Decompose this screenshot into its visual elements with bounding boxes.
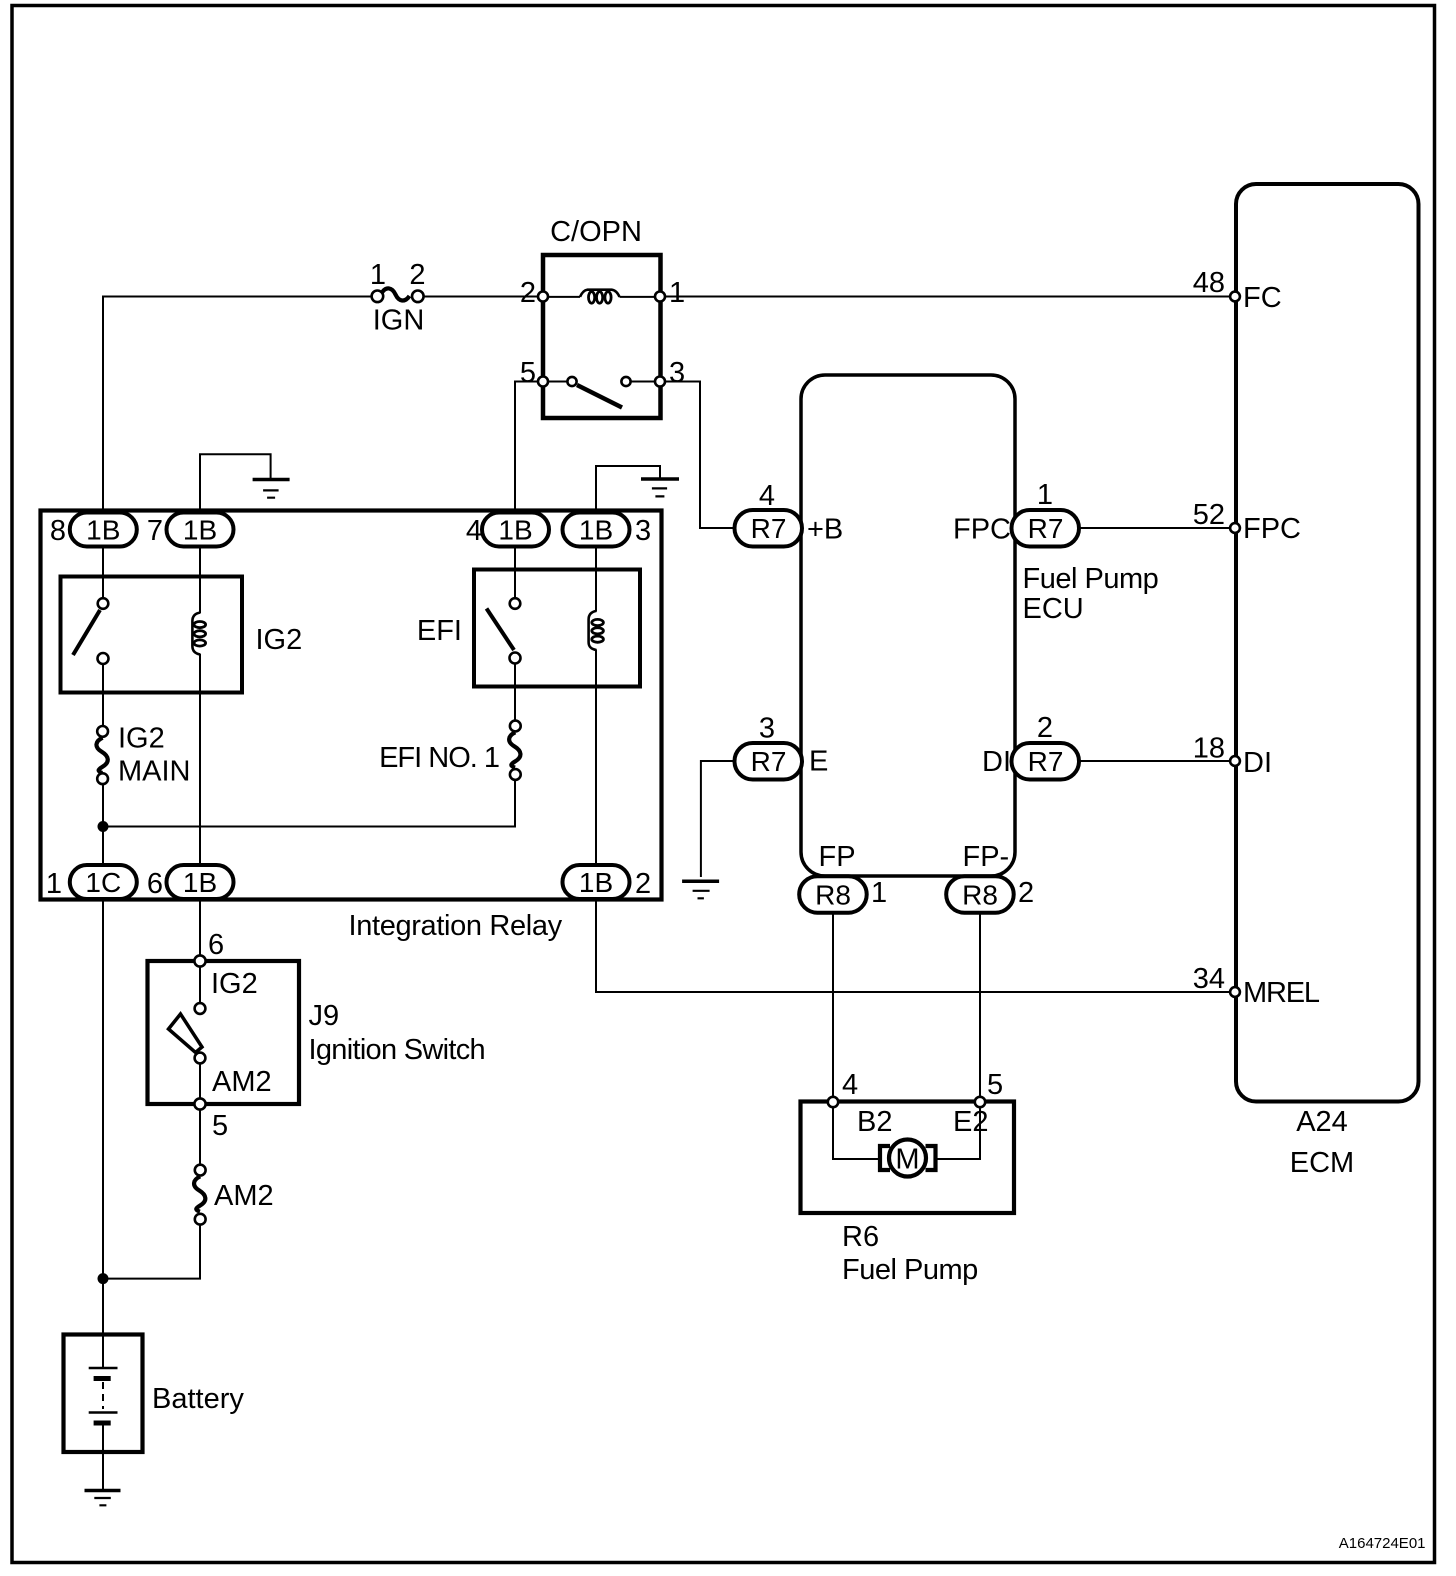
svg-text:R7: R7 bbox=[751, 746, 787, 777]
svg-text:DI: DI bbox=[982, 746, 1011, 778]
svg-text:EFI NO. 1: EFI NO. 1 bbox=[379, 742, 499, 774]
svg-text:8: 8 bbox=[50, 515, 66, 547]
svg-text:1: 1 bbox=[1037, 479, 1053, 511]
svg-text:J9: J9 bbox=[309, 1000, 340, 1032]
svg-text:B2: B2 bbox=[857, 1106, 892, 1138]
svg-text:18: 18 bbox=[1193, 733, 1225, 765]
svg-text:E2: E2 bbox=[953, 1106, 988, 1138]
svg-text:FP-: FP- bbox=[963, 841, 1010, 873]
svg-text:48: 48 bbox=[1193, 267, 1225, 299]
svg-text:IG2: IG2 bbox=[211, 968, 258, 1000]
svg-text:6: 6 bbox=[147, 868, 163, 900]
svg-text:3: 3 bbox=[669, 357, 685, 389]
svg-text:R7: R7 bbox=[751, 513, 787, 544]
svg-text:R8: R8 bbox=[962, 880, 998, 911]
svg-text:Integration Relay: Integration Relay bbox=[349, 910, 563, 942]
svg-text:1: 1 bbox=[46, 868, 62, 900]
svg-text:Battery: Battery bbox=[152, 1383, 244, 1415]
svg-text:1B: 1B bbox=[183, 867, 217, 898]
svg-text:2: 2 bbox=[1018, 877, 1034, 909]
svg-text:4: 4 bbox=[466, 515, 482, 547]
svg-text:MREL: MREL bbox=[1243, 977, 1320, 1009]
svg-text:R6: R6 bbox=[842, 1221, 879, 1253]
svg-text:AM2: AM2 bbox=[214, 1180, 274, 1212]
svg-text:AM2: AM2 bbox=[212, 1066, 272, 1098]
svg-text:5: 5 bbox=[212, 1110, 228, 1142]
svg-text:5: 5 bbox=[987, 1069, 1003, 1101]
svg-text:1B: 1B bbox=[498, 515, 532, 546]
svg-text:ECM: ECM bbox=[1290, 1147, 1354, 1179]
svg-text:3: 3 bbox=[759, 713, 775, 745]
svg-text:5: 5 bbox=[520, 357, 536, 389]
svg-text:Fuel Pump: Fuel Pump bbox=[1023, 563, 1159, 595]
svg-text:1: 1 bbox=[669, 277, 685, 309]
svg-text:2: 2 bbox=[635, 868, 651, 900]
svg-text:R7: R7 bbox=[1028, 746, 1064, 777]
svg-text:FP: FP bbox=[819, 841, 856, 873]
svg-text:4: 4 bbox=[842, 1069, 858, 1101]
svg-text:IG2: IG2 bbox=[118, 723, 165, 755]
svg-text:FPC: FPC bbox=[953, 514, 1011, 546]
svg-text:4: 4 bbox=[759, 480, 775, 512]
svg-text:Ignition Switch: Ignition Switch bbox=[309, 1034, 486, 1066]
svg-text:FC: FC bbox=[1243, 282, 1282, 314]
svg-text:1B: 1B bbox=[579, 867, 613, 898]
svg-text:MAIN: MAIN bbox=[118, 756, 191, 788]
svg-text:C/OPN: C/OPN bbox=[550, 216, 642, 248]
svg-text:Fuel Pump: Fuel Pump bbox=[842, 1254, 978, 1286]
svg-text:A24: A24 bbox=[1296, 1106, 1348, 1138]
svg-text:FPC: FPC bbox=[1243, 513, 1301, 545]
svg-text:IGN: IGN bbox=[373, 305, 425, 337]
svg-text:2: 2 bbox=[520, 277, 536, 309]
svg-text:ECU: ECU bbox=[1023, 593, 1084, 625]
svg-text:1: 1 bbox=[871, 877, 887, 909]
svg-text:7: 7 bbox=[147, 515, 163, 547]
svg-text:R7: R7 bbox=[1028, 513, 1064, 544]
svg-text:34: 34 bbox=[1193, 963, 1225, 995]
svg-text:M: M bbox=[895, 1144, 919, 1176]
svg-text:+B: +B bbox=[807, 514, 843, 546]
svg-text:6: 6 bbox=[208, 929, 224, 961]
svg-text:A164724E01: A164724E01 bbox=[1339, 1535, 1426, 1552]
svg-text:1B: 1B bbox=[579, 515, 613, 546]
svg-text:IG2: IG2 bbox=[256, 624, 303, 656]
svg-text:1C: 1C bbox=[85, 867, 121, 898]
svg-text:R8: R8 bbox=[815, 880, 851, 911]
svg-text:E: E bbox=[809, 746, 828, 778]
svg-text:EFI: EFI bbox=[417, 615, 462, 647]
svg-text:1: 1 bbox=[370, 259, 386, 291]
svg-text:1B: 1B bbox=[183, 515, 217, 546]
svg-text:2: 2 bbox=[409, 259, 425, 291]
svg-text:DI: DI bbox=[1243, 747, 1272, 779]
svg-text:3: 3 bbox=[635, 515, 651, 547]
svg-text:52: 52 bbox=[1193, 499, 1225, 531]
svg-text:2: 2 bbox=[1037, 712, 1053, 744]
svg-text:1B: 1B bbox=[86, 515, 120, 546]
